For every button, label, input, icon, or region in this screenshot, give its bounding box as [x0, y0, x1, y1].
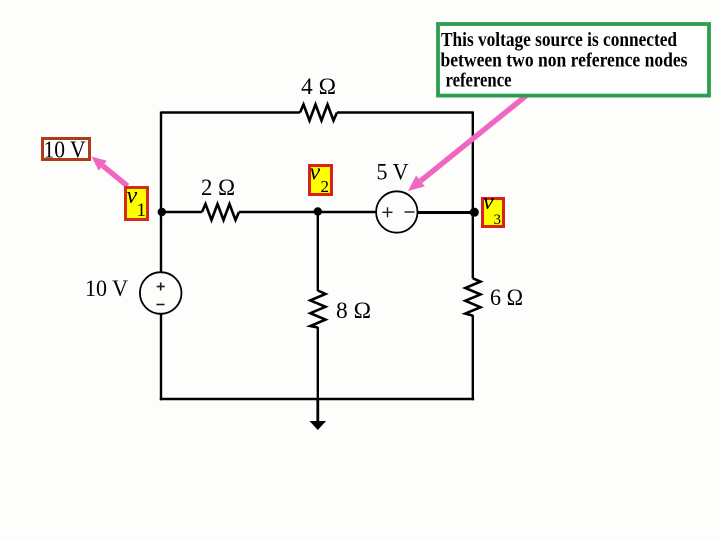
wire top horizontal right segment	[337, 111, 473, 113]
V2 minus sign	[405, 211, 415, 213]
wire right vertical upper segment	[472, 112, 474, 279]
node junction dot v1	[158, 208, 166, 216]
resistor R 2ohm zigzag	[202, 204, 239, 220]
svg-text:8 Ω: 8 Ω	[336, 298, 371, 323]
svg-text:2 Ω: 2 Ω	[201, 175, 235, 200]
pink arrow B from green callout to 5V source	[408, 95, 527, 191]
ground reference arrow stem	[316, 399, 319, 422]
V1 minus sign	[157, 304, 165, 306]
node label box v1	[126, 183, 148, 221]
wire left vertical lower segment	[160, 314, 162, 401]
wire middle horizontal segment b	[239, 211, 377, 213]
node label box v2	[310, 160, 332, 196]
wire middle horizontal segment c	[418, 211, 475, 214]
V2 plus sign	[383, 207, 393, 217]
svg-text:1: 1	[137, 200, 147, 221]
resistor R 4ohm zigzag	[300, 105, 337, 121]
ground reference arrowhead	[310, 421, 327, 430]
wire bottom horizontal	[160, 398, 474, 400]
voltage source V1 10V circle	[140, 272, 182, 314]
callout green text box	[438, 24, 709, 96]
node label box v3	[483, 189, 504, 228]
svg-text:v: v	[483, 189, 494, 215]
wire middle horizontal segment a	[161, 211, 202, 213]
svg-text:4 Ω: 4 Ω	[301, 74, 336, 99]
node junction dot v3	[470, 208, 479, 217]
svg-text:10 V: 10 V	[44, 138, 87, 164]
svg-text:6 Ω: 6 Ω	[490, 285, 523, 310]
svg-text:5 V: 5 V	[377, 160, 409, 185]
node junction dot v2	[314, 207, 322, 215]
svg-text:2: 2	[321, 177, 330, 196]
V1 plus sign	[157, 283, 165, 291]
svg-text:10 V: 10 V	[85, 276, 128, 301]
wire middle vertical upper segment	[317, 212, 319, 291]
svg-text:between two non reference node: between two non reference nodes	[441, 49, 688, 71]
voltage source V2 5V circle	[376, 191, 417, 232]
svg-text:This voltage source is connect: This voltage source is connected	[441, 29, 677, 51]
resistor R 8ohm zigzag	[310, 291, 325, 328]
svg-text:v: v	[310, 160, 321, 186]
pink arrow A from v1 box to 10V callout	[92, 157, 128, 187]
wire middle vertical lower segment	[317, 327, 319, 400]
wire left vertical upper segment	[160, 112, 162, 273]
callout box 10V label (white box brown border)	[43, 138, 90, 164]
svg-text:reference: reference	[446, 69, 512, 91]
wire right vertical lower segment	[472, 315, 474, 400]
svg-text:3: 3	[494, 212, 502, 228]
wire top horizontal left segment	[161, 111, 300, 113]
resistor R 6ohm zigzag	[465, 278, 480, 315]
